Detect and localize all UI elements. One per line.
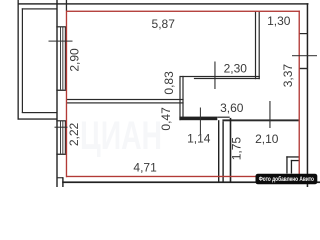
window W2 inner line bbox=[65, 121, 66, 154]
wire: notch horizontal wall top line bbox=[180, 76, 259, 77]
wire: door lintel line bbox=[217, 117, 229, 118]
wire: right outer building wall bbox=[307, 3, 309, 187]
wire: neighbor bottom inner wall line bbox=[22, 112, 57, 113]
wire: red apartment outline bottom bbox=[66, 176, 300, 177]
window W2 pane line b bbox=[61, 121, 64, 154]
svg-text:3,60: 3,60 bbox=[220, 101, 244, 115]
wire: window W1 top cap bbox=[56, 26, 66, 27]
svg-text:ЦИАН: ЦИАН bbox=[80, 114, 162, 158]
svg-text:2,30: 2,30 bbox=[224, 61, 248, 75]
wire: room bottom wall bottom line bbox=[67, 102, 184, 103]
svg-text:4,71: 4,71 bbox=[133, 161, 157, 175]
wire: neighbor left inner wall bbox=[22, 8, 23, 113]
wire: top outer building wall bbox=[18, 3, 309, 4]
svg-text:5,87: 5,87 bbox=[152, 17, 176, 31]
wire: apartment left outer wall bbox=[56, 0, 57, 187]
wire: hall vertical wall left line bbox=[255, 12, 256, 80]
wire: red apartment outline left bbox=[66, 11, 67, 178]
wire: hall vertical wall right line bbox=[259, 12, 260, 80]
svg-text:0,83: 0,83 bbox=[162, 71, 176, 95]
dimension tick 1,14 bbox=[200, 108, 201, 135]
dimension tick 2,30 bbox=[214, 62, 215, 90]
wire: red apartment outline top bbox=[66, 11, 300, 12]
wire: hall bottom wall right line bbox=[222, 119, 298, 121]
dimension tick 2,90 bbox=[49, 41, 73, 42]
window W1 inner line bbox=[65, 27, 66, 90]
wire: bottom-right outer corner vertical bbox=[286, 156, 287, 173]
window W1 pane line b bbox=[61, 27, 64, 90]
dimension tick 3,37 bbox=[292, 55, 317, 56]
wire: window W1 bottom cap bbox=[56, 90, 66, 91]
wire: right wall stub upper bbox=[300, 33, 308, 34]
wire: bottom-right inner corner vertical bbox=[291, 160, 292, 174]
wire: bottom-right outer corner horizontal bbox=[286, 156, 299, 157]
wire: hall bottom wall left band bbox=[179, 117, 217, 121]
wire: red apartment outline right bbox=[299, 11, 300, 175]
window W2 pane line a bbox=[59, 121, 62, 154]
wire: neighbor top inner wall line bbox=[22, 8, 57, 9]
window W1 pane line a bbox=[59, 27, 62, 90]
wire: bottom wall end vertical bbox=[62, 177, 63, 187]
wire: bottom-left step stub bbox=[57, 177, 63, 178]
dimension tick 2,22 bbox=[55, 127, 68, 128]
wire: lower vertical wall line c bbox=[230, 118, 232, 182]
wire: window W2 bottom cap bbox=[56, 154, 66, 155]
svg-text:1,14: 1,14 bbox=[187, 132, 211, 146]
wire: bottom outer building wall bbox=[62, 181, 320, 183]
svg-text:3,37: 3,37 bbox=[281, 64, 295, 88]
wire: neighbor left outer wall bbox=[18, 0, 19, 120]
watermark label box bbox=[256, 174, 318, 185]
svg-text:1,75: 1,75 bbox=[230, 137, 244, 161]
svg-text:2,90: 2,90 bbox=[67, 48, 81, 72]
wire: notch horizontal wall bottom line bbox=[194, 78, 260, 79]
wire: notch vertical wall left line bbox=[179, 76, 180, 120]
wire: lower vertical wall line a bbox=[218, 120, 219, 182]
wire: neighbor bottom outer wall line bbox=[18, 118, 57, 119]
wire: room bottom wall top line bbox=[67, 99, 184, 100]
wire: bottom-right inner corner horizontal bbox=[291, 160, 299, 161]
wire: notch vertical wall right line bbox=[182, 76, 183, 117]
wire: lower vertical wall line b bbox=[222, 121, 223, 182]
wire: right wall stub lower bbox=[300, 68, 308, 69]
svg-text:Фото добавлено Авито: Фото добавлено Авито bbox=[259, 175, 314, 183]
svg-text:1,30: 1,30 bbox=[267, 14, 291, 28]
wire: window W2 top cap bbox=[56, 120, 66, 121]
svg-text:2,10: 2,10 bbox=[255, 132, 279, 146]
wire: apartment left inner wall top stub bbox=[66, 0, 67, 11]
dimension tick 2,10 bbox=[269, 101, 270, 128]
